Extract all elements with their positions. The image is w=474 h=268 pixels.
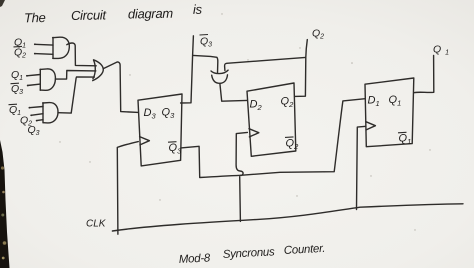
- caption: The Circuit diagram is: [24, 2, 203, 26]
- wire: A1 output to OR gate O1: [67, 43, 96, 66]
- svg-text:is: is: [193, 2, 203, 17]
- wire: X1 output to D2 input of flip-flop U2: [220, 84, 247, 102]
- wire: clock branch to U3: [357, 126, 366, 209]
- flip-flop U3 (D1): [365, 78, 414, 147]
- wire: A3 output to OR gate O1: [58, 77, 94, 113]
- label Q2-bar (input of A1): [14, 46, 27, 59]
- wire: input Q2-bar to A1: [35, 53, 53, 56]
- pin label Q2-bar of U2: [285, 137, 299, 151]
- wire: O1 output to D3 input of flip-flop U1: [103, 62, 138, 113]
- pen blobs at input wire starts: [26, 43, 38, 121]
- wire: input Q1-bar to A3: [29, 107, 43, 108]
- pin label Q1-bar of U3: [398, 132, 411, 146]
- clock input chevron of U2: [249, 129, 259, 137]
- flip-flop U1 (D3): [138, 94, 182, 166]
- wire: A2 output to OR gate O1: [55, 71, 95, 80]
- svg-text:The: The: [24, 10, 46, 25]
- top-left corner speck: [0, 0, 5, 7]
- wire: Q1 pin of U3 up to label Q1: [414, 55, 434, 92]
- svg-text:Counter.: Counter.: [284, 243, 326, 257]
- clock input chevron of U1: [140, 137, 150, 145]
- or gate O1: [93, 60, 104, 81]
- wire: clock riser to U1: [117, 142, 138, 235]
- wire: Q2 pin of U2 up to label Q2: [295, 40, 308, 97]
- wire: clock riser below junction to CLK line: [239, 177, 242, 222]
- paper specks: [59, 13, 430, 230]
- svg-text:Circuit: Circuit: [71, 7, 108, 23]
- svg-text:CLK: CLK: [86, 219, 107, 230]
- xor gate X1 (drawn as cup with double arc, output downward): [211, 70, 228, 83]
- wire: input Q3-bar to A2: [28, 84, 41, 85]
- wire: input Q1 to A1: [35, 43, 53, 46]
- clock input chevron of U3: [366, 122, 376, 130]
- wire: input Q2 to A3: [31, 114, 43, 116]
- wire: node Q3-bar to XOR gate X1 left input: [193, 55, 218, 73]
- wire: CLK main line: [112, 204, 463, 231]
- label Q3-bar (input of A2): [11, 83, 24, 96]
- pin label Q3-bar of U1: [168, 142, 182, 156]
- svg-text:diagram: diagram: [128, 6, 174, 22]
- wire: Q2 line into X1 right input: [225, 57, 306, 70]
- label Q3-bar (node above U1): [200, 35, 213, 49]
- wire: Q3 pin of U1 up to node Q3-bar: [181, 36, 194, 103]
- and gate A2 (middle, inputs Q1 and Q3-bar): [40, 69, 55, 90]
- flip-flop U2 (D2): [247, 83, 296, 156]
- wire: Q3-bar pin of U1 to D1 input of flip-flop U3: [181, 99, 365, 178]
- and gate A3 (bottom, inputs Q1-bar, Q2, Q3): [43, 103, 58, 123]
- and gate A1 (top, inputs Q1 and Q2-bar): [53, 37, 70, 58]
- wire: input Q3 to A3: [37, 119, 44, 122]
- svg-text:Mod-8: Mod-8: [179, 252, 212, 266]
- wire: input Q1 to A2: [27, 75, 41, 76]
- wire: clock branch to U2 with hook junction: [236, 132, 247, 175]
- label Q1-bar (input of A3): [9, 104, 22, 117]
- caption: Mod-8 Syncronus Counter.: [179, 243, 326, 266]
- left dark photo edge: [0, 140, 10, 268]
